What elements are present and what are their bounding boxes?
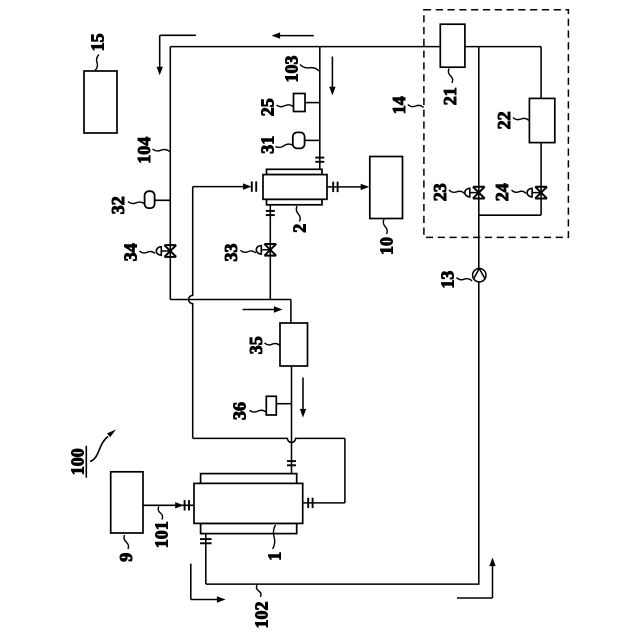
- svg-text:13: 13: [438, 271, 458, 289]
- svg-text:32: 32: [108, 196, 128, 214]
- svg-text:103: 103: [282, 56, 302, 83]
- svg-text:14: 14: [389, 96, 409, 114]
- svg-text:36: 36: [230, 402, 250, 420]
- svg-text:9: 9: [116, 553, 136, 562]
- svg-text:31: 31: [257, 136, 277, 154]
- svg-text:22: 22: [494, 111, 514, 129]
- svg-text:23: 23: [430, 183, 450, 201]
- svg-text:25: 25: [258, 98, 278, 116]
- svg-text:104: 104: [134, 137, 154, 164]
- svg-text:100: 100: [67, 448, 87, 475]
- svg-text:34: 34: [121, 243, 141, 261]
- svg-text:24: 24: [492, 183, 512, 201]
- svg-text:101: 101: [152, 521, 172, 548]
- svg-text:21: 21: [440, 87, 460, 105]
- svg-text:33: 33: [221, 244, 241, 262]
- svg-text:35: 35: [246, 336, 266, 354]
- svg-text:2: 2: [289, 224, 309, 233]
- svg-text:10: 10: [376, 237, 396, 255]
- svg-text:1: 1: [265, 552, 285, 561]
- svg-text:102: 102: [252, 602, 272, 629]
- svg-text:15: 15: [87, 33, 107, 51]
